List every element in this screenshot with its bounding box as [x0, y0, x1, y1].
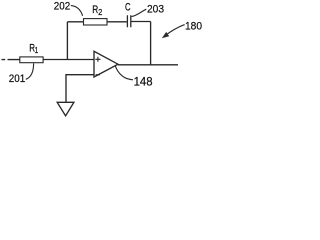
op-amp minus input marker — [96, 74, 100, 76]
wire top-left to R2 — [67, 21, 83, 23]
wire non-inverting input to ground — [66, 75, 94, 103]
wire output — [118, 64, 178, 66]
svg-text:1: 1 — [35, 45, 39, 55]
resistor R1 — [20, 57, 43, 63]
svg-text:203: 203 — [147, 4, 164, 16]
wire R2 to capacitor — [107, 21, 127, 23]
wire R1 to op-amp inverting input — [43, 59, 94, 61]
wire feedback left vertical — [66, 22, 68, 60]
wire capacitor to right corner — [132, 21, 151, 23]
resistor R2 — [84, 19, 108, 25]
leader line for 148 — [115, 66, 133, 80]
svg-text:2: 2 — [98, 7, 102, 17]
leader line for 203 — [132, 9, 147, 16]
op-amp plus input marker — [95, 57, 100, 62]
svg-text:180: 180 — [185, 20, 202, 32]
ground — [57, 102, 74, 116]
op-amp U1 148 — [94, 51, 118, 77]
capacitor C plates — [127, 15, 130, 27]
leader line for 202 — [71, 6, 83, 16]
leader line for 201 — [26, 63, 34, 79]
arrow leader for 180 — [165, 25, 185, 37]
svg-text:148: 148 — [134, 75, 153, 89]
svg-text:201: 201 — [9, 73, 25, 85]
svg-text:202: 202 — [54, 1, 70, 13]
arrowhead 180 — [162, 32, 169, 38]
wire feedback right vertical — [150, 22, 152, 65]
wire input left — [2, 59, 20, 61]
svg-text:C: C — [125, 2, 131, 14]
